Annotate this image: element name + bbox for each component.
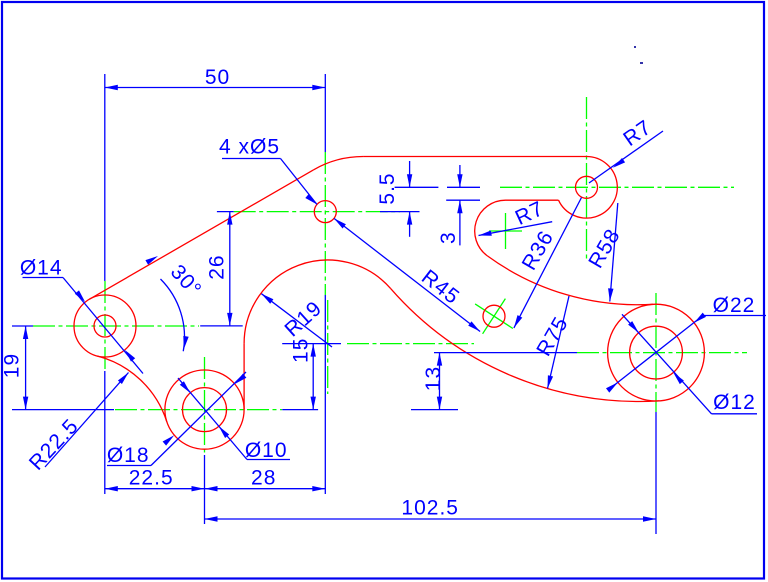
dim 50 line xyxy=(105,87,325,89)
label 4xO5 leader xyxy=(281,159,317,205)
centerline T horizontal xyxy=(234,211,400,213)
centerline node N vertical xyxy=(327,300,329,394)
label 4xO5 arrow xyxy=(305,194,317,205)
dim 26 line xyxy=(229,212,231,326)
dim 3 ext bottom xyxy=(446,199,480,201)
label O18 leader xyxy=(151,372,246,466)
svg-text:Ø14: Ø14 xyxy=(20,257,63,280)
hole dia5 at M xyxy=(483,305,505,327)
centerline L vertical xyxy=(104,281,106,371)
label O22 leader xyxy=(611,316,703,388)
dim 13 arrow top xyxy=(437,353,442,366)
dim 3 ext top xyxy=(447,186,480,188)
dim 19 ext bottom xyxy=(12,409,114,411)
svg-text:30°: 30° xyxy=(166,260,206,301)
label O14 arrow upper xyxy=(75,290,85,302)
svg-text:R36: R36 xyxy=(518,227,559,274)
svg-text:R45: R45 xyxy=(417,265,464,309)
label O18 arrow lower xyxy=(163,435,175,445)
svg-text:R7: R7 xyxy=(619,116,656,151)
label 4xO5 underline xyxy=(222,158,281,160)
outline top transition arc xyxy=(314,156,364,169)
outline 30deg tangent line xyxy=(90,170,314,299)
dim 5.5 arrow lower xyxy=(407,212,412,225)
dim R22.5 arrow xyxy=(118,373,129,385)
svg-text:4 xØ5: 4 xØ5 xyxy=(219,135,280,158)
dim R75 arrow xyxy=(548,375,554,388)
outline arc R22.5 xyxy=(97,356,167,422)
dim 19 ext top xyxy=(12,325,33,327)
centerline B vertical xyxy=(204,357,206,455)
dim 30deg arc xyxy=(160,279,184,351)
label O14 leader xyxy=(63,278,143,374)
hole dia12 at V xyxy=(630,326,683,379)
dim 19 line xyxy=(25,326,27,410)
dim 30deg arrow on line xyxy=(145,256,158,265)
svg-text:102.5: 102.5 xyxy=(401,497,459,520)
svg-text:Ø18: Ø18 xyxy=(107,444,150,467)
dim 28 ext right xyxy=(324,295,326,494)
dim 13 arrow bottom xyxy=(437,397,442,410)
outline U boss arc R7 xyxy=(559,157,618,219)
dim 50 extension left xyxy=(104,74,106,281)
centerline V horizontal xyxy=(577,352,747,354)
dim R36 leader xyxy=(514,198,582,328)
outline notch cap arc R7 xyxy=(475,200,506,256)
label O12 arrow upper xyxy=(628,321,639,333)
dim 102.5 ext right xyxy=(655,412,657,534)
dim R36 arrow xyxy=(514,315,522,328)
center mark C7 vertical xyxy=(505,213,507,249)
dim 102.5 arrow left xyxy=(205,516,218,521)
dim 28 line xyxy=(205,488,326,490)
dim R7 notch leader xyxy=(479,222,553,236)
svg-text:3: 3 xyxy=(437,231,460,244)
dim R22.5 leader xyxy=(45,373,129,468)
centerline node N horizontal xyxy=(347,343,474,345)
stray speck 2 xyxy=(640,62,643,64)
dim R58 leader xyxy=(610,203,618,302)
svg-text:Ø12: Ø12 xyxy=(713,391,756,414)
svg-text:50: 50 xyxy=(205,66,230,89)
label O12 underline xyxy=(712,413,758,415)
svg-text:28: 28 xyxy=(251,467,276,490)
centerline V vertical xyxy=(655,293,657,412)
svg-text:Ø22: Ø22 xyxy=(713,294,756,317)
svg-text:R58: R58 xyxy=(584,225,625,272)
svg-text:22.5: 22.5 xyxy=(129,467,174,490)
dim 22.5 arrow right xyxy=(192,486,205,491)
svg-text:R22.5: R22.5 xyxy=(25,414,83,474)
label O14 underline xyxy=(23,277,64,279)
dim 50 extension right xyxy=(324,74,326,152)
dim R7 notch arrow xyxy=(479,231,492,236)
dim 15 ext top xyxy=(282,343,341,345)
centerline M radial xyxy=(483,299,506,334)
label O18 arrow upper xyxy=(235,374,247,384)
hole dia5 at U xyxy=(576,176,598,198)
boss circle dia14 at L xyxy=(74,295,136,357)
label O18 underline xyxy=(107,465,151,467)
svg-text:R7: R7 xyxy=(512,197,548,230)
outline top edge xyxy=(363,156,586,158)
dim 13 ext top xyxy=(434,352,577,354)
dim 5.5 ext bottom xyxy=(380,211,420,213)
dim 102.5 line xyxy=(205,518,657,520)
dim 30deg arrow arc end xyxy=(183,336,188,349)
dim 26 ext top xyxy=(217,211,234,213)
dim 15 arrow top xyxy=(311,344,316,357)
label O10 underline xyxy=(247,459,290,461)
dim 15 ext bottom xyxy=(282,409,318,411)
center mark C7 horizontal xyxy=(489,230,522,232)
dim 3 line lower xyxy=(459,200,461,245)
boss circle dia18 at B xyxy=(165,370,244,449)
dim 26 arrow top xyxy=(227,212,232,225)
dim 3 arrow upper xyxy=(457,174,462,187)
centerline B horizontal xyxy=(115,409,282,411)
dim 19 arrow bottom xyxy=(23,397,28,410)
dim 5.5 arrow upper xyxy=(407,174,412,187)
dim R19 arrow xyxy=(261,294,273,304)
outline arc R75 xyxy=(391,289,659,402)
stray speck 1 xyxy=(634,46,636,48)
dim 28 arrow left xyxy=(205,486,218,491)
svg-text:26: 26 xyxy=(206,254,229,279)
dim R58 arrow xyxy=(608,288,613,301)
dim 102.5 arrow right xyxy=(643,516,656,521)
dim R75 leader xyxy=(548,296,570,389)
label O14 arrow lower xyxy=(125,350,135,362)
centerline U horizontal xyxy=(500,186,734,188)
dim 5.5 line upper xyxy=(409,161,411,187)
dim R45 arrow far xyxy=(468,321,480,331)
dim 3 arrow lower xyxy=(457,200,462,213)
hole dia10 at B xyxy=(183,388,227,432)
outline web vertical line xyxy=(243,344,245,410)
dim R19 leader xyxy=(261,294,332,347)
dim 22.5 ext left xyxy=(104,371,106,494)
outline arc R58 xyxy=(487,256,653,305)
dim 5.5 ext top xyxy=(395,186,439,188)
boss circle dia22 at V xyxy=(608,304,705,401)
label O12 leader xyxy=(622,314,712,414)
hole dia5 at L xyxy=(94,315,116,337)
label O12 arrow lower xyxy=(673,373,684,385)
svg-text:13: 13 xyxy=(422,366,445,391)
svg-text:5.5: 5.5 xyxy=(376,172,399,204)
centerline T vertical xyxy=(324,152,326,295)
label O10 leader xyxy=(178,378,247,460)
hole dia5 at T xyxy=(314,201,336,223)
dim 102.5 ext left xyxy=(204,455,206,524)
dim 13 ext bottom xyxy=(411,409,458,411)
centerline M tangential xyxy=(475,304,513,329)
dim R45 line xyxy=(334,218,480,331)
dim 5.5 line lower xyxy=(409,212,411,237)
svg-text:Ø10: Ø10 xyxy=(245,439,288,462)
dim 50 arrow left xyxy=(105,85,118,90)
centerline U vertical xyxy=(586,97,588,262)
dim 13 line xyxy=(439,353,441,410)
label O10 arrow lower xyxy=(219,426,229,438)
svg-text:19: 19 xyxy=(1,353,24,378)
label O10 arrow upper xyxy=(180,381,190,393)
label O22 arrow upper xyxy=(694,313,706,323)
dim R7 upper leader xyxy=(589,131,663,183)
dim 15 line xyxy=(312,344,314,410)
dim R45 arrow near xyxy=(334,218,346,228)
dim 3 line upper xyxy=(459,165,461,187)
svg-text:R19: R19 xyxy=(280,297,326,342)
dim 19 arrow top xyxy=(23,326,28,339)
dim 22.5 arrow left xyxy=(105,486,118,491)
dim 26 ext bottom xyxy=(200,325,243,327)
centerline L horizontal xyxy=(33,325,199,327)
label O22 arrow lower xyxy=(606,382,618,392)
outline notch top line xyxy=(506,199,559,201)
dim 26 arrow bottom xyxy=(227,313,232,326)
dim R7 upper arrow xyxy=(613,158,625,168)
label O22 underline xyxy=(703,315,766,317)
dim 28 arrow right xyxy=(312,486,325,491)
dim 50 arrow right xyxy=(312,85,325,90)
outline arc R19 xyxy=(244,260,391,344)
dim 15 arrow bottom xyxy=(311,397,316,410)
svg-text:15: 15 xyxy=(290,338,313,363)
dim 22.5 line xyxy=(105,488,205,490)
